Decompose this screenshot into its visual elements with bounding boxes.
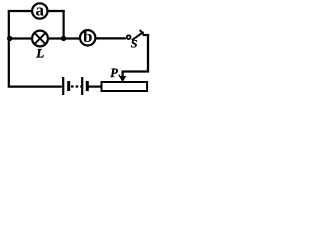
speck after label P <box>119 75 121 77</box>
wire: lamp to meter b (through junction) <box>48 37 80 39</box>
wire: drop from top branch down to lamp row <box>62 10 64 38</box>
wire: left vertical to lamp <box>9 37 32 39</box>
wire: battery to bottom-left corner <box>8 85 62 87</box>
wire: meter a to top corner <box>48 10 64 12</box>
lamp L (circle with X) <box>32 31 48 47</box>
svg-text:a: a <box>36 0 45 19</box>
wire: switch to top-right corner <box>143 34 150 36</box>
battery cell 1: long plate <box>62 77 64 95</box>
meter b <box>80 27 95 46</box>
battery cell 2: long plate <box>81 77 83 95</box>
ammeter a (meter a) <box>32 0 47 19</box>
svg-text:L: L <box>35 45 44 60</box>
battery cell 1: short plate <box>67 81 70 91</box>
switch S: blade with end crossbar <box>132 30 144 40</box>
wire: left vertical <box>8 11 10 87</box>
switch S: open contact ring <box>127 35 131 39</box>
wire: meter b to switch contact <box>96 37 126 39</box>
battery: dashed link between cells <box>71 85 81 87</box>
wire: right vertical <box>147 34 149 72</box>
svg-text:P: P <box>110 66 118 80</box>
wire: right corner to rheostat slider <box>123 70 150 72</box>
svg-text:b: b <box>83 27 92 46</box>
svg-text:S: S <box>131 37 138 51</box>
wire: top horizontal from left corner to meter a <box>8 10 32 12</box>
node: junction dot where parallel branch rejoins <box>61 36 66 41</box>
wire: rheostat to battery <box>88 85 101 87</box>
rheostat R body <box>102 82 148 91</box>
battery cell 2: short plate <box>86 81 89 91</box>
node: junction dot on left vertical at lamp row <box>7 36 12 41</box>
rheostat slider arrow <box>119 71 126 83</box>
